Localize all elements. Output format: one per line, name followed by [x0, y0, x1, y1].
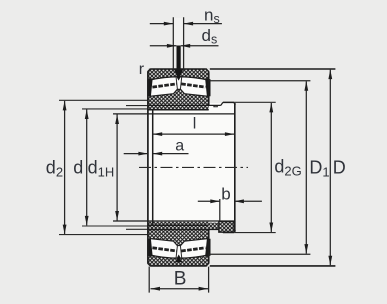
- svg-text:l: l: [193, 116, 197, 133]
- svg-text:B: B: [174, 269, 187, 290]
- svg-text:b: b: [221, 184, 230, 203]
- svg-text:r: r: [139, 61, 145, 78]
- svg-text:d: d: [73, 158, 83, 178]
- svg-text:D: D: [333, 157, 346, 177]
- svg-text:a: a: [175, 137, 184, 154]
